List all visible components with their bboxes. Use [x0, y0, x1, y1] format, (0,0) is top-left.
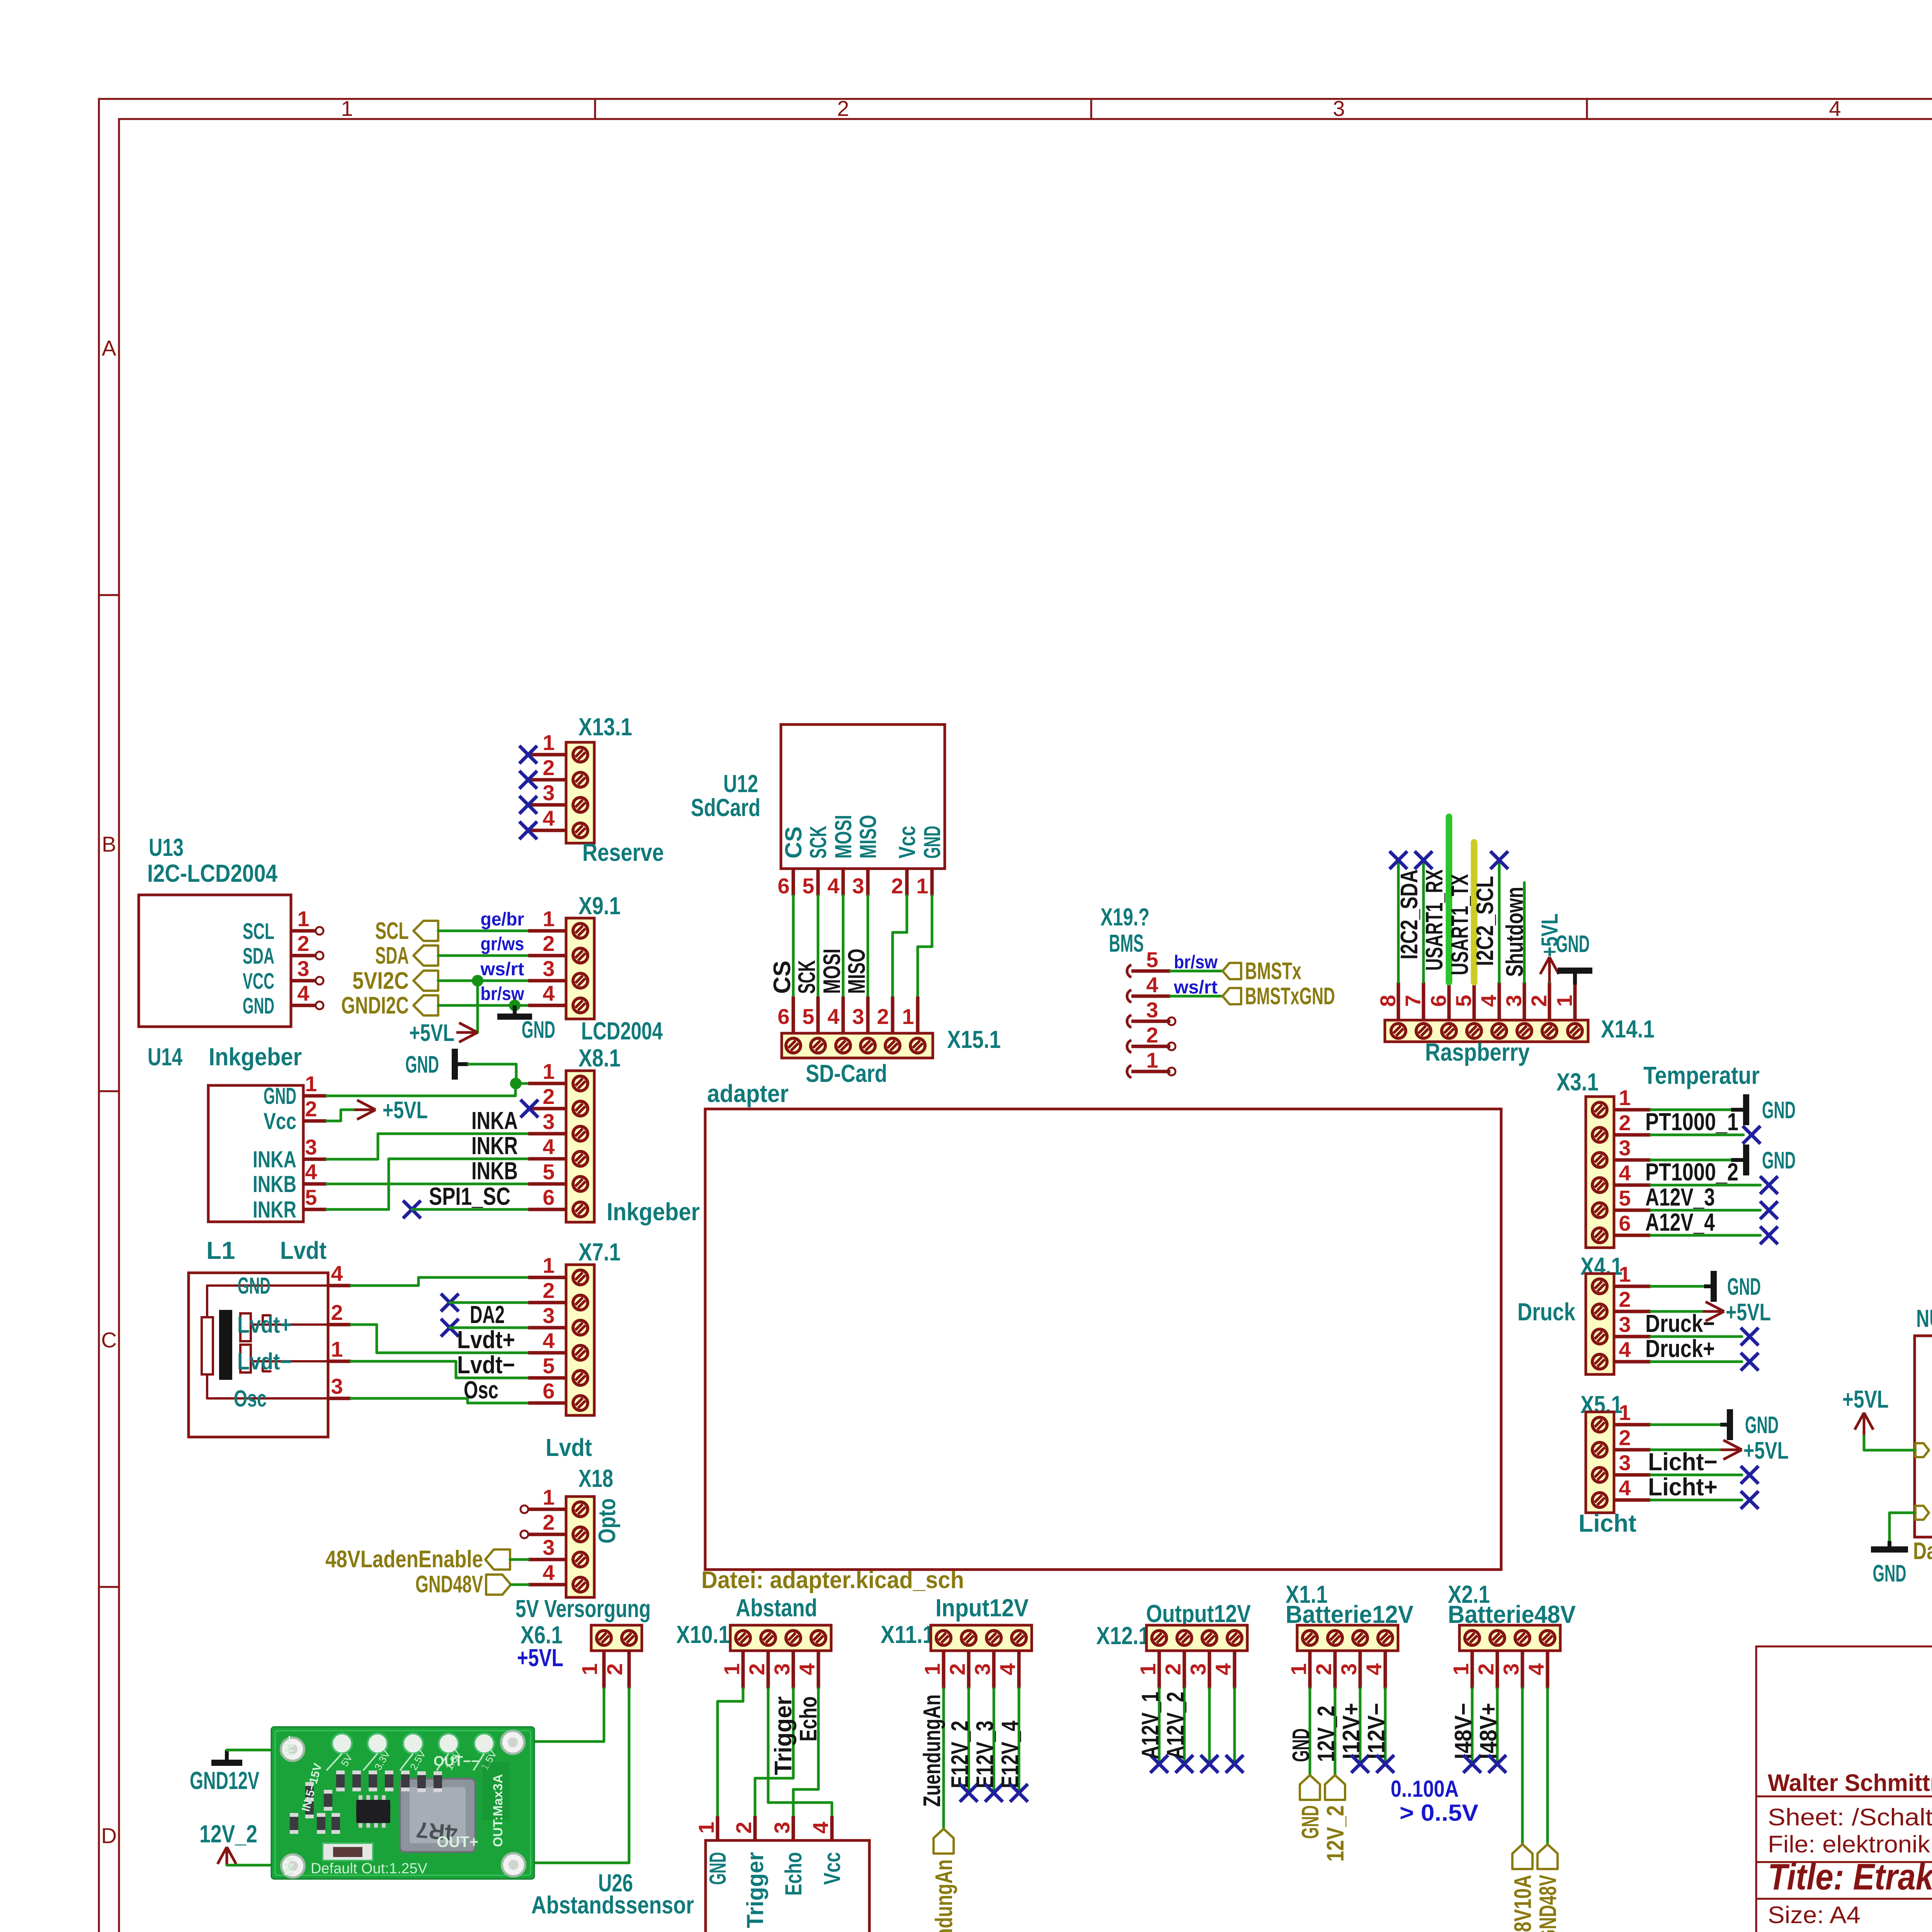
svg-text:4: 4 [827, 1004, 839, 1029]
svg-text:E12V_2: E12V_2 [947, 1721, 973, 1788]
svg-text:GND: GND [243, 993, 274, 1019]
no-connect E12V_2 [960, 1784, 978, 1802]
wire ZuendungAn [942, 1689, 945, 1829]
svg-text:Shutdown: Shutdown [1502, 887, 1528, 977]
svg-text:GND: GND [405, 1051, 439, 1078]
wire U14 GND to X8.1 pin1 [327, 1083, 515, 1096]
ground GND (X14.1 pin1) [1573, 972, 1577, 985]
sheet pin E5V [1915, 1443, 1929, 1457]
svg-text:Trigger: Trigger [770, 1696, 797, 1775]
svg-text:CS: CS [769, 961, 796, 994]
svg-text:2: 2 [543, 931, 554, 956]
svg-text:SDA: SDA [375, 942, 409, 969]
U26 pin 3 Echo [792, 1816, 795, 1840]
no-connect X12.1 pin1 [1150, 1755, 1168, 1773]
svg-text:INKA: INKA [253, 1146, 296, 1172]
no-connect I12V- [1376, 1755, 1394, 1773]
no-connect I48V+ [1488, 1755, 1506, 1773]
junction on 5VI2C wire [472, 975, 483, 986]
svg-text:3: 3 [543, 1109, 554, 1134]
wire 12V_2 to PCB [227, 1864, 291, 1867]
svg-text:GND12V: GND12V [190, 1767, 259, 1794]
svg-text:3: 3 [1499, 1663, 1523, 1675]
svg-text:+5VL: +5VL [383, 1097, 428, 1124]
svg-text:3: 3 [770, 1821, 794, 1833]
svg-text:4: 4 [827, 874, 839, 898]
svg-text:Vcc: Vcc [264, 1108, 296, 1134]
svg-text:2: 2 [1161, 1663, 1185, 1675]
svg-text:1: 1 [543, 1059, 554, 1083]
svg-text:5: 5 [1146, 947, 1158, 972]
svg-text:2: 2 [877, 1004, 889, 1029]
svg-text:GND48V: GND48V [415, 1571, 483, 1598]
svg-text:3: 3 [1186, 1663, 1210, 1675]
svg-text:ge/br: ge/br [481, 909, 524, 930]
svg-text:2: 2 [297, 931, 309, 956]
wire GND to X8.1 pin1 [468, 1064, 516, 1083]
hier label ZuendungAn [934, 1829, 954, 1854]
svg-text:Sheet: /Schaltschrank/Elektron: Sheet: /Schaltschrank/Elektronik/ [1768, 1804, 1932, 1831]
svg-text:MISO: MISO [855, 815, 881, 859]
svg-text:I2C2_SCL: I2C2_SCL [1472, 876, 1498, 966]
svg-text:GNDI2C: GNDI2C [341, 992, 409, 1019]
svg-text:I48V+: I48V+ [1475, 1703, 1502, 1759]
svg-text:4: 4 [543, 1328, 554, 1353]
open pin X18.2 [520, 1531, 528, 1538]
wire Vcc to X15.1 pin2 [893, 896, 907, 997]
svg-text:3: 3 [1146, 998, 1158, 1022]
svg-text:5VI2C: 5VI2C [352, 968, 409, 994]
hier label GND48V [1537, 1844, 1558, 1869]
svg-text:GND: GND [919, 826, 945, 859]
wire X3.1 p3 to GND [1651, 1159, 1731, 1162]
svg-text:SCL: SCL [243, 919, 274, 944]
svg-text:A12V_3: A12V_3 [1645, 1183, 1715, 1211]
svg-text:12V_2: 12V_2 [1322, 1805, 1349, 1862]
no-connect A12V_3 [1760, 1201, 1778, 1219]
svg-text:3: 3 [852, 1004, 864, 1029]
no-connect USART1_RX [1415, 851, 1432, 869]
U26 pin 4 Vcc [830, 1816, 834, 1840]
svg-text:Licht+: Licht+ [1648, 1473, 1718, 1501]
power +5VL (X14.1 pin2) [1548, 971, 1551, 982]
svg-text:8: 8 [1376, 995, 1400, 1007]
hier label BMSTxGND [1223, 988, 1241, 1004]
wire X14.1 pin4 [1498, 862, 1501, 982]
svg-text:USART1_RX: USART1_RX [1421, 869, 1448, 971]
svg-text:Abstand: Abstand [736, 1594, 817, 1622]
svg-text:5: 5 [1451, 995, 1476, 1007]
svg-text:I12V+: I12V+ [1338, 1703, 1365, 1759]
wire I48V- [1471, 1689, 1474, 1764]
svg-text:GND: GND [238, 1273, 270, 1299]
wire Druck+ [1651, 1361, 1742, 1363]
svg-text:5: 5 [543, 1354, 554, 1378]
svg-text:PT1000_1: PT1000_1 [1645, 1108, 1738, 1136]
svg-text:3: 3 [543, 1303, 554, 1328]
svg-text:4: 4 [297, 981, 309, 1005]
wire X7.1 pin2 [450, 1301, 528, 1304]
svg-text:2: 2 [1311, 1663, 1336, 1675]
svg-text:1: 1 [543, 1485, 554, 1509]
svg-text:4: 4 [808, 1821, 833, 1833]
svg-text:Size: A4: Size: A4 [1768, 1902, 1861, 1929]
junction X8.1 pin1 [510, 1078, 522, 1089]
wire MOSI [842, 896, 845, 997]
svg-text:GND48V: GND48V [1535, 1875, 1561, 1932]
wire A12V_3 [1651, 1209, 1760, 1212]
wire X6.1 pin1 to PCB OUT- [515, 1689, 604, 1742]
svg-text:3: 3 [543, 781, 554, 805]
svg-text:48VLadenEnable: 48VLadenEnable [325, 1546, 483, 1573]
wire INKR [327, 1159, 528, 1209]
svg-text:Lvdt+: Lvdt+ [237, 1312, 292, 1338]
svg-text:Datei: adapter.kicad_sch: Datei: adapter.kicad_sch [701, 1567, 964, 1594]
svg-text:X11.1: X11.1 [881, 1621, 934, 1648]
svg-text:Opto: Opto [594, 1498, 621, 1544]
wire SDA to X9.1 [438, 954, 528, 957]
svg-text:3: 3 [543, 1535, 554, 1560]
svg-text:Vcc: Vcc [819, 1852, 845, 1885]
no-connect E12V_4 [1010, 1784, 1028, 1802]
wire 5VI2C to X9.1 [438, 980, 528, 982]
hier label BMSTx [1223, 963, 1241, 979]
svg-text:5: 5 [305, 1185, 317, 1209]
svg-text:Walter Schmittroth: Walter Schmittroth [1768, 1770, 1932, 1796]
wire BMSTx [1170, 970, 1223, 973]
svg-text:2: 2 [543, 1510, 554, 1534]
no-connect Druck- [1741, 1328, 1759, 1345]
svg-text:2: 2 [745, 1663, 769, 1675]
svg-text:4: 4 [1524, 1663, 1548, 1675]
svg-text:4: 4 [1619, 1476, 1631, 1500]
svg-text:ZuendungAn: ZuendungAn [931, 1859, 957, 1932]
svg-text:D: D [101, 1823, 117, 1848]
ground GND (X4.1) [1704, 1284, 1711, 1288]
svg-text:3: 3 [770, 1663, 794, 1675]
title block [1756, 1646, 1932, 1932]
svg-text:X12.1: X12.1 [1096, 1622, 1150, 1650]
wire DA2 [450, 1327, 528, 1329]
ground GND (rotated, to X8.1 pin1) [452, 1049, 458, 1080]
svg-text:GND: GND [1297, 1805, 1324, 1839]
svg-text:Lvdt: Lvdt [546, 1434, 592, 1461]
svg-text:Licht−: Licht− [1648, 1448, 1718, 1476]
photo: step-down converter PCB [271, 1727, 534, 1879]
svg-text:6: 6 [777, 874, 789, 898]
svg-text:2: 2 [1527, 995, 1551, 1007]
svg-text:1: 1 [543, 1253, 554, 1277]
svg-text:4: 4 [1362, 1663, 1386, 1675]
svg-text:Trigger: Trigger [742, 1852, 768, 1928]
svg-text:IN+: IN+ [282, 1855, 297, 1876]
svg-text:+5VL: +5VL [409, 1020, 454, 1046]
svg-text:A12V_4: A12V_4 [1645, 1208, 1715, 1236]
svg-text:Licht: Licht [1578, 1509, 1636, 1537]
svg-text:3: 3 [1337, 1663, 1361, 1675]
L1 internal LVDT graphic [202, 1317, 213, 1374]
svg-text:Raspberry: Raspberry [1425, 1038, 1530, 1066]
connector X15.1 SD-Card [782, 1033, 933, 1058]
wire X12.1 pin2 [1183, 1689, 1186, 1764]
svg-text:7: 7 [1401, 995, 1425, 1007]
svg-text:1: 1 [1552, 995, 1577, 1007]
svg-text:3: 3 [543, 956, 554, 981]
svg-text:4: 4 [1829, 96, 1841, 121]
svg-text:BMSTxGND: BMSTxGND [1245, 983, 1335, 1010]
svg-text:3: 3 [1502, 995, 1526, 1007]
svg-text:PT1000_2: PT1000_2 [1645, 1158, 1738, 1186]
svg-text:Druck+: Druck+ [1645, 1335, 1715, 1362]
svg-text:6: 6 [543, 1379, 554, 1403]
svg-text:gr/ws: gr/ws [481, 934, 524, 954]
svg-text:A12V_2: A12V_2 [1162, 1692, 1189, 1759]
svg-text:2: 2 [331, 1300, 343, 1325]
svg-text:4: 4 [1619, 1337, 1631, 1362]
svg-text:Inkgeber: Inkgeber [607, 1198, 700, 1226]
svg-text:SPI1_SC: SPI1_SC [429, 1182, 510, 1210]
svg-text:+5VL: +5VL [517, 1644, 563, 1672]
no-connect X7.1 pin3 [441, 1319, 459, 1337]
svg-text:X8.1: X8.1 [578, 1044, 621, 1072]
svg-text:C: C [101, 1328, 117, 1352]
svg-text:SD-Card: SD-Card [806, 1060, 887, 1087]
svg-text:1: 1 [543, 906, 554, 931]
wire GNDI2C to X9.1 [438, 1004, 528, 1007]
svg-text:L1: L1 [206, 1236, 235, 1264]
svg-text:SCK: SCK [805, 826, 831, 859]
svg-text:Lvdt−: Lvdt− [457, 1351, 515, 1379]
svg-text:A12V_1: A12V_1 [1137, 1692, 1164, 1759]
wire Lvdt- [351, 1361, 528, 1378]
svg-text:4: 4 [543, 981, 554, 1005]
ground GND (X3.1 p3) [1731, 1158, 1743, 1162]
no-connect I48V- [1463, 1755, 1481, 1773]
wire X3.1 p1 to GND [1651, 1109, 1731, 1111]
svg-text:6: 6 [1619, 1211, 1631, 1235]
svg-text:48V10A: 48V10A [1510, 1875, 1536, 1932]
no-connect PT1000_1 [1743, 1126, 1760, 1144]
svg-text:X19.?: X19.? [1100, 903, 1150, 931]
svg-text:3: 3 [1333, 96, 1345, 121]
svg-text:OUT:Max3A: OUT:Max3A [491, 1774, 505, 1847]
power +5VL (left of X9.1) [456, 1031, 478, 1034]
no-connect Druck+ [1741, 1353, 1759, 1371]
svg-text:3: 3 [305, 1135, 317, 1159]
open pin X18.1 [520, 1505, 528, 1513]
svg-text:GND: GND [1556, 931, 1590, 957]
svg-text:1: 1 [1619, 1085, 1631, 1110]
wire SCL to X9.1 [438, 930, 528, 932]
svg-text:Default Out:1.25V: Default Out:1.25V [311, 1861, 428, 1877]
svg-text:SdCard: SdCard [691, 794, 760, 821]
power +5VL (X4.1) [1703, 1310, 1724, 1313]
no-connect X13.1 pin2 [519, 771, 537, 789]
svg-text:5: 5 [802, 874, 814, 898]
no-connect Licht+ [1741, 1491, 1759, 1509]
BMS pin 2 [1127, 1040, 1131, 1053]
svg-text:1: 1 [1619, 1262, 1631, 1286]
svg-text:1: 1 [902, 1004, 914, 1029]
svg-text:Vcc: Vcc [894, 826, 920, 859]
wire PT1000_1 [1651, 1134, 1743, 1136]
svg-text:X7.1: X7.1 [578, 1238, 621, 1266]
svg-text:4: 4 [1146, 973, 1158, 997]
svg-text:I12V−: I12V− [1363, 1703, 1390, 1759]
BMS pin 1 [1127, 1065, 1131, 1078]
svg-text:Lvdt+: Lvdt+ [457, 1326, 515, 1354]
svg-text:GND: GND [264, 1083, 296, 1109]
svg-text:X13.1: X13.1 [578, 713, 632, 741]
sheet pin GND [1915, 1506, 1929, 1520]
wire Lvdt+ [351, 1325, 528, 1353]
svg-text:Osc: Osc [464, 1376, 498, 1404]
wire BMSTxGND [1170, 995, 1223, 998]
wire X10.1 p2 to U26 Vcc [768, 1689, 832, 1816]
svg-text:Title: Etraktor: Title: Etraktor [1768, 1856, 1932, 1898]
svg-text:OUT−−: OUT−− [434, 1753, 479, 1769]
svg-text:Input12V: Input12V [935, 1594, 1029, 1622]
svg-text:1: 1 [1449, 1663, 1473, 1675]
svg-text:Druck: Druck [1517, 1298, 1575, 1326]
svg-text:A: A [102, 336, 116, 360]
wire X6.1 pin2 to PCB OUT+ [517, 1689, 629, 1863]
no-connect X13.1 pin4 [519, 821, 537, 839]
no-connect I2C2_SDA [1389, 851, 1407, 869]
power +5VL (U14) [354, 1109, 376, 1111]
svg-text:Inkgeber: Inkgeber [209, 1043, 302, 1071]
svg-text:Lvdt−: Lvdt− [237, 1349, 292, 1374]
svg-text:GND: GND [1727, 1274, 1761, 1300]
svg-text:X15.1: X15.1 [947, 1026, 1001, 1053]
svg-text:12V_2: 12V_2 [199, 1820, 257, 1848]
wire X10.1 p1 to U26 GND [718, 1689, 743, 1816]
svg-text:4: 4 [795, 1663, 819, 1675]
svg-text:2: 2 [543, 755, 554, 780]
svg-text:Datei: NUCLEO-G071.kicad_sch: Datei: NUCLEO-G071.kicad_sch [1913, 1538, 1932, 1565]
svg-text:4: 4 [995, 1663, 1020, 1675]
svg-text:CS: CS [781, 827, 806, 859]
svg-text:1: 1 [916, 874, 928, 898]
svg-text:12V_2: 12V_2 [1313, 1706, 1340, 1762]
wire INKA [327, 1134, 528, 1159]
svg-text:E12V_4: E12V_4 [997, 1721, 1024, 1788]
svg-text:1: 1 [1136, 1663, 1160, 1675]
connector X14.1 Raspberry [1385, 1020, 1588, 1042]
wire X12.1 pin3 [1208, 1689, 1211, 1764]
U26 pin 2 Trigger [753, 1816, 757, 1840]
svg-text:2: 2 [837, 96, 849, 121]
ground GND at X9.1 pin4 [513, 1005, 517, 1014]
wire I48V+ [1496, 1689, 1499, 1764]
wire Osc [351, 1398, 528, 1403]
wire Licht- [1651, 1474, 1742, 1476]
svg-text:> 0..5V: > 0..5V [1400, 1800, 1478, 1826]
ground GND (X5.1) [1720, 1423, 1727, 1427]
svg-text:4: 4 [1476, 995, 1501, 1007]
wire Druck- [1651, 1335, 1742, 1338]
svg-text:3: 3 [852, 874, 864, 898]
svg-text:GND: GND [1762, 1097, 1796, 1124]
wire A12V_4 [1651, 1234, 1760, 1237]
svg-text:+5VL: +5VL [1743, 1437, 1789, 1464]
svg-text:1: 1 [1286, 1663, 1311, 1675]
svg-text:LCD2004: LCD2004 [581, 1017, 663, 1045]
wire INKB [327, 1183, 528, 1185]
wire PT1000_2 [1651, 1184, 1760, 1187]
U26 pin 1 GND [716, 1816, 719, 1840]
svg-text:4: 4 [543, 1560, 554, 1585]
svg-text:2: 2 [731, 1821, 756, 1833]
svg-text:adapter: adapter [707, 1080, 789, 1107]
wire USART1_RX [1422, 862, 1425, 982]
svg-text:U13: U13 [149, 833, 184, 861]
BMS pin 5 [1127, 965, 1131, 977]
svg-text:NUCLEO-G071: NUCLEO-G071 [1916, 1304, 1932, 1332]
junction on GNDI2C wire [509, 1000, 520, 1011]
svg-text:2: 2 [543, 1084, 554, 1109]
svg-text:I2C-LCD2004: I2C-LCD2004 [147, 859, 277, 887]
svg-text:1: 1 [694, 1821, 718, 1833]
no-connect E12V_3 [985, 1784, 1003, 1802]
BMS pin 4 [1127, 990, 1131, 1002]
svg-text:1: 1 [543, 730, 554, 755]
svg-text:3: 3 [1619, 1312, 1631, 1337]
wire GND (X1.1 p1) [1309, 1689, 1311, 1775]
no-connect PT1000_2 [1760, 1176, 1778, 1194]
svg-text:U14: U14 [148, 1043, 182, 1071]
wire Shutdown [1523, 883, 1526, 982]
svg-text:3: 3 [297, 956, 309, 981]
svg-text:INKA: INKA [471, 1107, 518, 1134]
svg-text:I48V−: I48V− [1450, 1703, 1477, 1759]
svg-text:X9.1: X9.1 [578, 892, 621, 920]
svg-text:SDA: SDA [243, 944, 274, 969]
svg-text:1: 1 [341, 96, 353, 121]
svg-text:6: 6 [1426, 995, 1451, 1007]
svg-text:5V Versorgung: 5V Versorgung [515, 1595, 651, 1622]
svg-text:4: 4 [543, 806, 554, 830]
svg-text:GND: GND [1873, 1560, 1906, 1587]
BMS pin 3 [1127, 1015, 1131, 1027]
ground GND12V [211, 1760, 242, 1766]
svg-text:ws/rt: ws/rt [1173, 977, 1218, 998]
svg-text:2: 2 [602, 1663, 627, 1675]
svg-text:0..100A: 0..100A [1391, 1776, 1459, 1802]
svg-text:ws/rt: ws/rt [480, 959, 524, 980]
svg-text:SCL: SCL [375, 918, 409, 944]
svg-text:3: 3 [331, 1374, 343, 1398]
svg-text:Output12V: Output12V [1146, 1600, 1251, 1628]
hier label 12V_2 [1325, 1775, 1345, 1800]
svg-text:SCK: SCK [794, 960, 820, 994]
wire 48VLadenEnable [510, 1558, 528, 1561]
wire +5VL to E5V [1864, 1436, 1915, 1450]
no-connect X13.1 pin3 [519, 796, 537, 814]
svg-text:INKB: INKB [471, 1157, 518, 1185]
svg-text:OUT+: OUT+ [437, 1833, 478, 1850]
svg-text:Echo: Echo [781, 1852, 806, 1896]
svg-text:+5VL: +5VL [1842, 1385, 1889, 1413]
svg-text:GND: GND [522, 1017, 555, 1043]
open pin BMS 1 [1131, 1070, 1168, 1073]
wire X10.1 p3 to U26 Trigger [755, 1689, 793, 1816]
svg-text:VCC: VCC [243, 969, 274, 994]
svg-text:3: 3 [1619, 1451, 1631, 1475]
svg-text:2: 2 [1619, 1287, 1631, 1311]
svg-text:E12V_3: E12V_3 [972, 1721, 998, 1788]
svg-text:br/sw: br/sw [1174, 952, 1218, 973]
